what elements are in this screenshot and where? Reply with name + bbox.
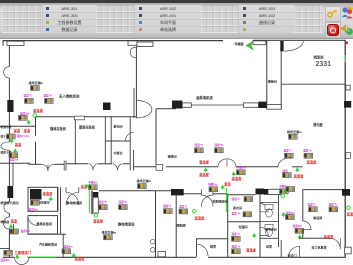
black column right y101 (344, 101, 351, 108)
wall vert x278.5 (278, 195, 280, 247)
wall vert x281 (280, 51, 282, 110)
door header box mid-top B (137, 42, 153, 47)
corridor top wall a (29, 163, 42, 165)
wall vert x13.5 bl (13, 224, 15, 234)
green tri shaft top (85, 184, 89, 189)
svg-text:喷漆烘干房间: 喷漆烘干房间 (1, 200, 19, 205)
door arc left wall low a (4, 202, 9, 213)
svg-text:温温: 温温 (11, 219, 18, 224)
boxed wall corridor right2 (268, 189, 282, 194)
wall h y108.8 (156, 108, 176, 110)
black wall block corridor mid2 (264, 189, 271, 195)
display box b2 (9, 153, 18, 158)
green tri cor4 (221, 185, 225, 190)
corridor top wall i (292, 166, 303, 168)
green tri cor1 (204, 167, 208, 172)
wall h y84 right (281, 83, 345, 85)
boxed wall corridor right (271, 189, 282, 194)
display box mid2 (215, 148, 224, 153)
svg-text:更衣室间: 更衣室间 (266, 228, 277, 232)
wall h y234 (28, 233, 66, 235)
corridor top wall h (236, 166, 278, 168)
display box cor7 (280, 189, 289, 194)
svg-text:观光廊: 观光廊 (312, 122, 323, 127)
wall outer top-right span (253, 39, 346, 41)
wall h y221.8 (228, 221, 260, 223)
svg-text:排风空调m: 排风空调m (102, 229, 117, 234)
door jamb h2 (212, 189, 214, 195)
display box mid1 (195, 148, 204, 153)
green tri blk (49, 196, 53, 201)
door arc x260 a (260, 203, 268, 211)
door arc x260 b (260, 227, 268, 235)
corridor top wall c (66, 163, 88, 165)
svg-text:温度*C: 温度*C (163, 204, 171, 208)
wall outer left mid2 (8, 150, 10, 202)
svg-text:器具存放间: 器具存放间 (78, 124, 95, 129)
wall outer left upper (8, 46, 10, 67)
wall vert x130 (129, 117, 131, 171)
svg-text:湿度*%: 湿度*% (329, 202, 338, 206)
boxed wall segment mid b (244, 103, 259, 107)
corridor bottom wall d (228, 194, 256, 196)
svg-text:湿度*%: 湿度*% (232, 212, 241, 216)
corridor bottom wall b (184, 193, 202, 195)
corridor top wall g (166, 166, 218, 168)
display box sp3 (164, 209, 173, 214)
corridor double door f center (226, 159, 228, 167)
svg-text:传感器: 传感器 (234, 41, 245, 46)
door arc left wall low b (3, 217, 9, 229)
svg-text:温温度: 温温度 (199, 160, 210, 165)
svg-text:三厘喷漆门: 三厘喷漆门 (15, 250, 32, 255)
room 器具存放间 3 (28, 187, 58, 211)
svg-text:温度8m: 温度8m (20, 112, 30, 116)
wall room divider y116.7 a (36, 116, 75, 118)
wall h wc1 (260, 202, 279, 204)
corridor jamb c2 (65, 161, 67, 171)
svg-text:温度8m: 温度8m (286, 211, 296, 215)
corridor double door h1 (201, 195, 213, 207)
door arc top-mid (130, 47, 136, 58)
display box bl2 (10, 229, 19, 234)
wall vert x136 upper (135, 47, 137, 119)
display box cor4 (283, 173, 292, 178)
svg-text:喷漆水洗: 喷漆水洗 (1, 125, 12, 129)
door header box mid-top A (128, 41, 137, 45)
svg-text:静电喷漆间: 静电喷漆间 (118, 221, 135, 226)
text column 1 (42, 5, 97, 33)
column circle 2 (151, 248, 156, 253)
svg-text:温温度: 温温度 (324, 234, 335, 239)
svg-text:排风空调m: 排风空调m (29, 80, 44, 85)
svg-text:淋浴间: 淋浴间 (313, 215, 322, 220)
svg-text:暗室: 暗室 (210, 243, 216, 248)
svg-text:湿度*%: 湿度*% (119, 200, 128, 204)
svg-text:温度11.8m: 温度11.8m (17, 134, 30, 138)
corridor double door h2 (201, 195, 213, 207)
svg-text:仓储间: 仓储间 (238, 224, 248, 229)
svg-text:温度8m: 温度8m (21, 229, 31, 233)
wall outer bottom b (29, 256, 196, 258)
display box a2 (25, 98, 34, 103)
svg-text:前室: 前室 (266, 243, 272, 248)
x-door arc 2 (66, 192, 79, 205)
display box br4 (329, 207, 338, 212)
black column right room (342, 189, 350, 196)
display box a1 (31, 86, 40, 91)
display box cor1 (89, 185, 98, 190)
display box blk (31, 200, 40, 205)
svg-text:温度8m: 温度8m (9, 158, 19, 162)
shaft wall line b (92, 191, 94, 214)
wall booth top y126.3 (0, 125, 36, 127)
green tri cor3 (295, 167, 299, 172)
wall vert x156 (155, 109, 157, 165)
speaker icon (340, 22, 353, 36)
corridor door arc g (278, 157, 292, 167)
black block left mid (30, 189, 42, 200)
svg-text:湿度*%: 湿度*% (44, 94, 53, 98)
thin wall mid span (191, 104, 243, 106)
svg-text:温温度: 温温度 (93, 219, 104, 224)
display box wc upper (286, 215, 295, 220)
svg-text:喷烘房: 喷烘房 (1, 219, 10, 224)
svg-text:安全门: 安全门 (288, 252, 297, 257)
door jamb h1 (200, 189, 202, 195)
wall vert x267 (266, 40, 268, 109)
black wall segment left upper (7, 100, 13, 112)
svg-text:湿度*%: 湿度*% (303, 148, 312, 152)
svg-text:喷烘干房: 喷烘干房 (1, 151, 12, 155)
wall vert x35.5 upper (35, 117, 37, 136)
door arc x303 (303, 221, 311, 230)
wc fixture bowl 2 (266, 228, 273, 236)
corridor bottom wall c (213, 193, 228, 195)
wall booth mid y163 (0, 162, 30, 164)
green tri cor2 (232, 171, 236, 176)
corridor butterfly door d2 (93, 164, 98, 170)
display box c3 (304, 153, 313, 158)
svg-text:温温: 温温 (347, 211, 353, 216)
svg-text:汽车输配室间: 汽车输配室间 (39, 241, 57, 246)
svg-text:喷粉房: 喷粉房 (177, 222, 186, 227)
corridor top wall e (123, 163, 130, 165)
button grid D (294, 5, 323, 33)
black wall block mid-right (259, 102, 267, 108)
door jamb box corridor mid (156, 165, 163, 171)
svg-text:温温: 温温 (224, 181, 231, 186)
corridor double door f1 (218, 159, 227, 167)
wall vert x176 bottom (175, 195, 177, 257)
shaft wall line a (90, 191, 92, 214)
green circle a (33, 114, 37, 118)
door arc x136 a (136, 101, 152, 110)
wall vert x155.5 (155, 191, 157, 257)
svg-text:无人喷枪房间: 无人喷枪房间 (58, 94, 80, 99)
green tri a (27, 120, 31, 125)
display box bm5 (232, 249, 241, 254)
door arc room4 (28, 216, 38, 226)
wall vert x196.5 (196, 239, 198, 257)
svg-text:温度*C: 温度*C (232, 197, 240, 201)
svg-text:温温度: 温温度 (232, 176, 243, 181)
svg-text:温度8m: 温度8m (1, 258, 11, 262)
display box c2 (285, 153, 294, 158)
wall h wc2 (260, 221, 279, 223)
green circle shaft bottom (94, 214, 98, 218)
wall outer top-left span (3, 40, 223, 42)
display box cor3 (237, 170, 246, 175)
wall h y238 right (299, 237, 330, 239)
svg-text:温温度: 温温度 (246, 247, 257, 252)
corridor bottom wall a (99, 190, 176, 192)
svg-text:温度*C: 温度*C (195, 143, 203, 147)
stairwell bottom double wall (267, 105, 281, 110)
small box bottom mid (158, 252, 166, 257)
green tri bl4 (72, 253, 76, 258)
small box bottom right (345, 247, 352, 254)
svg-text:甲醛8m: 甲醛8m (208, 182, 218, 186)
green tri b2 (13, 148, 17, 153)
svg-text:温度*C: 温度*C (308, 202, 316, 206)
svg-text:温度8m: 温度8m (64, 244, 74, 248)
svg-text:温温度: 温温度 (195, 215, 206, 220)
boxed wall segment mid a (182, 103, 191, 107)
door leaf top-right (280, 41, 283, 51)
display box cor8 (286, 187, 295, 192)
svg-text:技工休息室: 技工休息室 (312, 244, 327, 249)
green wire vertical (225, 188, 227, 212)
wall vert x106 (104, 117, 106, 164)
svg-text:铝粉喷涂间: 铝粉喷涂间 (213, 198, 228, 203)
display box cor2 (138, 184, 147, 189)
wall h bl y248 (0, 248, 9, 250)
display box bm3 (243, 212, 252, 217)
green tri bl3 (15, 254, 19, 259)
svg-text:调漆间: 调漆间 (168, 154, 177, 159)
black wall block mid-left (172, 101, 182, 109)
door header box top-right (253, 41, 266, 45)
power button (325, 22, 341, 38)
display box bm4 (232, 236, 241, 241)
wall vert x260 (259, 195, 261, 258)
display box bm1 (179, 209, 188, 214)
button grid B (96, 5, 134, 33)
green wire along bottom wall (27, 256, 56, 258)
display box a3 (45, 98, 54, 103)
svg-text:温度*C: 温度*C (284, 148, 292, 152)
svg-text:温温: 温温 (24, 128, 31, 133)
display box br1 (295, 228, 304, 233)
wall vert x303 (302, 190, 304, 221)
green arrow sensor (246, 41, 254, 50)
corridor butterfly door d1 (88, 164, 93, 170)
svg-text:温温度: 温温度 (199, 172, 210, 177)
corridor top wall f (134, 166, 156, 168)
black column big room (103, 103, 111, 111)
svg-text:喷漆间: 喷漆间 (314, 55, 325, 60)
room 器具存放间 4 (28, 216, 58, 234)
svg-text:排风空调m: 排风空调m (287, 129, 302, 134)
column circle 1 (151, 239, 156, 244)
green tri b1 (10, 138, 14, 143)
wall h y238.8 (196, 238, 227, 240)
svg-text:静电喷漆间: 静电喷漆间 (67, 200, 82, 205)
wc fixture 2 (265, 225, 273, 230)
display box bl3 (4, 250, 13, 255)
svg-text:排风空调m: 排风空调m (137, 178, 152, 183)
green tri br1 (298, 234, 302, 239)
corridor double door a center (47, 164, 49, 171)
wall vert x58 (57, 187, 59, 211)
wall vert x35.5 lower (35, 142, 37, 165)
green wire right wall (344, 55, 346, 62)
svg-text:温温: 温温 (15, 142, 22, 147)
door arc bottom left b (22, 257, 29, 264)
wall vert x281 bottom (280, 240, 282, 257)
wall h right room top (303, 189, 346, 191)
wall vert booth x13 (12, 163, 14, 186)
wall vert x75 room div (74, 120, 76, 165)
svg-text:温温度: 温温度 (294, 173, 305, 178)
wall vert x112.5 (110, 117, 112, 164)
button grid C (201, 5, 238, 33)
wall outer bottom c (208, 256, 346, 258)
users icon (341, 6, 353, 20)
display box br3 (309, 207, 318, 212)
door header box room divider (75, 116, 85, 120)
svg-text:温度*C: 温度*C (232, 232, 240, 236)
door arc bottom left (15, 257, 22, 265)
door header box top-left (7, 41, 24, 45)
wall outer left mid1 (8, 78, 10, 142)
display box cor6 (209, 187, 218, 192)
svg-text:温度8m: 温度8m (29, 207, 39, 211)
svg-text:器具存放间: 器具存放间 (49, 126, 66, 131)
corridor jamb c1 (63, 161, 65, 171)
svg-text:温度8m: 温度8m (293, 224, 303, 228)
door arc 更衣间 (126, 132, 135, 141)
corridor butterfly door e2 (118, 164, 123, 171)
door arc left wall mid (1, 142, 10, 151)
wall outer left mid3 (8, 213, 10, 217)
wall outer right (344, 40, 346, 258)
svg-text:温温度: 温温度 (75, 256, 86, 261)
display box a4 (19, 115, 28, 120)
svg-text:温温: 温温 (14, 128, 21, 133)
wall outer left lower (8, 229, 10, 257)
x-door arc 1 (66, 192, 79, 205)
svg-text:2331: 2331 (316, 61, 332, 68)
svg-text:更衣间: 更衣间 (114, 124, 123, 129)
wall h wc3 (260, 237, 279, 239)
door arc 安全门 (289, 246, 300, 257)
x-door jamb 1 (65, 187, 67, 192)
text column 2 (134, 5, 202, 33)
corridor top wall b (54, 163, 64, 165)
shaft black head (93, 192, 98, 197)
wc fixture bowl 1 (266, 209, 273, 217)
corridor double door f2 (227, 159, 236, 167)
svg-text:温度*C: 温度*C (179, 205, 187, 209)
wall outer bottom a (3, 256, 14, 258)
door arc x136 b (136, 109, 152, 118)
display box bl4 (62, 249, 71, 254)
black wall segment left lower (7, 186, 13, 198)
svg-text:器具存放间: 器具存放间 (36, 221, 52, 226)
wall room divider y116.7 b (84, 116, 136, 118)
svg-text:甲醛8m: 甲醛8m (237, 165, 247, 169)
wc fixture 1 (265, 205, 273, 210)
green wire shaft left (88, 188, 90, 214)
door arc bm (197, 244, 209, 256)
wall vert x60.5 (60, 187, 62, 234)
svg-text:温度*C: 温度*C (99, 200, 107, 204)
svg-text:温温度: 温温度 (307, 160, 318, 165)
green circle cor (281, 194, 285, 198)
svg-text:更衣间: 更衣间 (233, 205, 242, 210)
svg-text:油泵电机房: 油泵电机房 (196, 95, 214, 100)
wall vert x303 b (302, 230, 304, 239)
svg-text:甲醛8m: 甲醛8m (89, 180, 99, 184)
green tri bl2 (9, 224, 13, 229)
svg-text:温度*C: 温度*C (24, 94, 32, 98)
green circle bm (193, 209, 197, 213)
display box bm2 (244, 197, 253, 202)
door arc br2 (330, 238, 340, 249)
green tri cor5 (283, 188, 287, 193)
black wall block corridor left (171, 189, 184, 195)
display box c1 (289, 134, 298, 139)
key button (325, 6, 341, 22)
corridor top wall d (98, 163, 112, 165)
door arc top-right (284, 41, 304, 51)
wall outer top notch (2, 40, 4, 46)
wall vert x133.6 (133, 150, 135, 171)
corridor butterfly door e1 (112, 164, 117, 171)
green circle br (347, 206, 351, 210)
svg-text:温温度: 温温度 (43, 191, 54, 196)
wall vert x134 lower parallel (133, 88, 135, 118)
corridor double door a2 (48, 164, 54, 170)
svg-text:楼梯间: 楼梯间 (268, 79, 277, 84)
wall vert x63 bottom (62, 234, 64, 257)
svg-text:温温度: 温温度 (33, 108, 44, 113)
door arc left wall top (4, 67, 10, 79)
black wall block corridor mid (256, 189, 265, 195)
svg-text:湿度*%: 湿度*% (215, 143, 224, 147)
svg-text:中更衣: 中更衣 (114, 150, 123, 155)
svg-text:湿度*%: 湿度*% (232, 244, 241, 248)
shaft white body (93, 197, 98, 213)
red mark top right (346, 42, 348, 45)
window box right wall (346, 153, 351, 159)
display box sp4 (104, 235, 113, 240)
green tri bm4 (252, 233, 256, 238)
wall 更衣间 bottom y142 (105, 140, 130, 142)
small box right wall (346, 85, 350, 90)
green tri wc upper (281, 212, 285, 217)
display box sp2 (119, 205, 128, 210)
display box sp1 (99, 205, 108, 210)
text column 3 (238, 5, 296, 33)
corridor double door a1 (42, 164, 48, 170)
display box b1 (7, 134, 16, 139)
x-door jamb 2 (78, 187, 80, 192)
wall vert x227.7 (227, 194, 229, 257)
button grid A (2, 5, 42, 33)
